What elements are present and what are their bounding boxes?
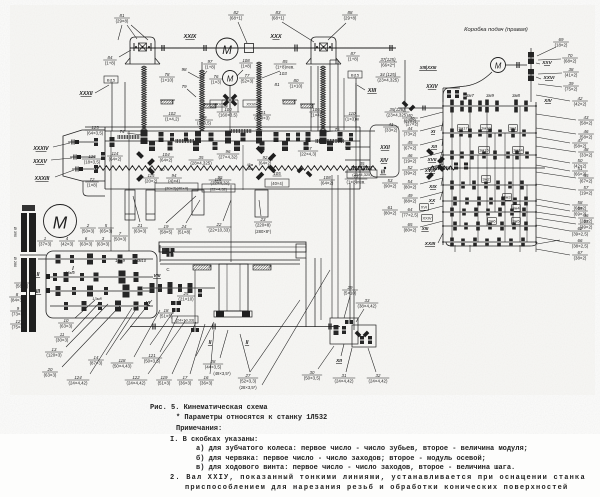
svg-text:49: 49 (408, 193, 413, 198)
svg-text:(64×2): (64×2) (259, 160, 272, 165)
svg-text:(28×3,5*): (28×3,5*) (239, 385, 257, 390)
svg-text:67: 67 (578, 250, 583, 255)
label 13m9 13m10 (115, 258, 147, 263)
svg-text:(18×2): (18×2) (555, 42, 568, 47)
label 104 (64x2) (158, 152, 174, 172)
label 42 (42×2) right of feed box (536, 95, 588, 106)
svg-text:90: 90 (160, 167, 165, 172)
svg-text:(51×5): (51×5) (160, 313, 173, 318)
label 3m6 boxed (488, 218, 497, 225)
svg-text:62: 62 (578, 226, 583, 231)
label 115 94 boxed (143, 173, 198, 191)
label 75 (326, 127, 340, 132)
svg-text:13: 13 (52, 347, 57, 352)
label 70 (68x2) (538, 53, 578, 64)
label XIII XXIII (419, 65, 437, 70)
svg-text:(38×2): (38×2) (574, 255, 587, 260)
svg-text:(33×2): (33×2) (580, 152, 593, 157)
svg-text:83: 83 (276, 10, 281, 15)
cross slide gears (334, 320, 373, 344)
label XXXV (32, 158, 72, 165)
label 17 (36x3) (177, 324, 205, 385)
label 41 (33x2) (383, 122, 399, 133)
label 77 (52x3) (239, 73, 255, 84)
caption line 5 (196, 444, 528, 453)
svg-text:(280×8*): (280×8*) (255, 229, 272, 234)
svg-text:13м9: 13м9 (115, 258, 126, 263)
coupling block on shaft XXIX at x249 (245, 44, 298, 53)
svg-text:Ø 390: Ø 390 (13, 227, 17, 237)
svg-text:(23×4,325): (23×4,325) (352, 172, 372, 177)
svg-text:66: 66 (578, 238, 583, 243)
support hatch mid (203, 104, 218, 108)
label XI left of feed box (430, 121, 443, 135)
gear teeth comb b (176, 139, 194, 143)
svg-text:(67×2): (67×2) (404, 145, 417, 150)
spindle gear row line (105, 130, 375, 132)
svg-text:(36×3): (36×3) (200, 380, 213, 385)
svg-text:(51×8): (51×8) (178, 229, 191, 234)
svg-text:3м17: 3м17 (458, 126, 468, 131)
svg-text:(22×4,32): (22×4,32) (210, 186, 228, 191)
label 72 (1x8) (85, 177, 98, 188)
svg-text:(75×3): (75×3) (12, 324, 25, 329)
svg-text:M: M (53, 212, 68, 232)
pulley column white notches (20, 252, 46, 295)
label 105 (40x4) (265, 171, 289, 187)
svg-text:(20×2)(40×4): (20×2)(40×4) (165, 185, 189, 190)
svg-text:(65×3): (65×3) (100, 228, 113, 233)
label 43 (58×2) right of feed box (536, 114, 594, 125)
label 69 (18x2) (537, 37, 569, 56)
feed motor M3 (491, 58, 506, 73)
label 100 (160x3,5) (217, 107, 240, 118)
svg-text:3м6: 3м6 (488, 219, 496, 224)
label II a (208, 340, 212, 346)
svg-text:(24×4,42): (24×4,42) (335, 378, 354, 383)
svg-text:14: 14 (94, 355, 99, 360)
feed gearbox top edge (443, 88, 460, 102)
svg-text:52: 52 (408, 165, 413, 170)
label XXXII (78, 85, 109, 97)
apron long shaft II (130, 326, 340, 328)
svg-text:(19×2): (19×2) (404, 158, 417, 163)
label 1 (37x3) (37, 236, 53, 247)
label 82 (68+1) (228, 10, 247, 43)
label 102 (1x4,2) (163, 111, 181, 122)
svg-text:(22×10,33): (22×10,33) (208, 227, 230, 232)
svg-text:108: 108 (242, 58, 250, 63)
svg-text:(64×3,5): (64×3,5) (87, 130, 104, 135)
svg-text:(80×2): (80×2) (384, 210, 397, 215)
vertical worm shaft right tall (344, 78, 356, 130)
label 3m8 (512, 93, 520, 98)
label 87 (1+8) (346, 51, 359, 62)
svg-text:39: 39 (569, 81, 574, 86)
label 13m4 (65, 270, 102, 301)
label 28 (44x3,5) (203, 330, 228, 369)
label 29 (5x10) (342, 285, 358, 318)
svg-text:48м: 48м (247, 167, 254, 171)
label 40 (27x2) (404, 116, 420, 127)
gears on upper gear shaft (149, 141, 351, 151)
caption line 3 (176, 425, 222, 433)
headstock left tower wall (112, 82, 125, 131)
label 12 (75x3) (10, 319, 26, 330)
svg-text:(58×2): (58×2) (580, 120, 593, 125)
label 6 (63x3) (78, 236, 94, 247)
fan leader long 2 (262, 270, 330, 385)
label XVII left of feed box (426, 149, 443, 163)
svg-text:48: 48 (584, 147, 589, 152)
svg-text:(23×4,325): (23×4,325) (386, 112, 408, 117)
svg-text:3м3: 3м3 (503, 195, 511, 200)
label 23 (220x8) (254, 200, 272, 234)
svg-text:(77×2,5): (77×2,5) (402, 212, 419, 217)
svg-text:51: 51 (578, 166, 583, 171)
hanging gear A (125, 190, 135, 220)
caption line 9 (185, 483, 568, 492)
svg-text:30: 30 (310, 370, 315, 375)
svg-text:(29×8): (29×8) (116, 18, 129, 23)
svg-text:72: 72 (90, 177, 95, 182)
label 66 (38×2,5) right of feed box (536, 237, 590, 248)
svg-text:119: 119 (161, 375, 169, 380)
svg-text:70: 70 (568, 53, 573, 58)
caption line 2 (176, 414, 327, 422)
coupling on shaft XXIX at x205 (204, 45, 206, 51)
label XII left of feed box (430, 136, 443, 150)
feed gearbox left wall (442, 102, 444, 245)
svg-text:(49×3,5*): (49×3,5*) (213, 371, 231, 376)
label 10 (63x3) (58, 300, 95, 328)
svg-text:41: 41 (389, 122, 394, 127)
label 49 (88×2) left of feed box (402, 192, 443, 203)
svg-text:(120×3): (120×3) (46, 352, 62, 357)
label 21 (63x3) (132, 196, 148, 233)
label 74 (119, 129, 142, 135)
cross slide housing (330, 318, 376, 347)
label 45 (67×2) left of feed box (402, 139, 443, 150)
svg-text:58: 58 (578, 200, 583, 205)
label 53 (90x2) (382, 178, 398, 189)
label 107 (64x3) (298, 146, 318, 157)
svg-text:(80×2): (80×2) (404, 184, 417, 189)
label 97 (1+8) (203, 59, 217, 76)
curve from motor to gearbox (443, 72, 492, 102)
svg-text:80: 80 (294, 78, 299, 83)
svg-text:(68×2): (68×2) (564, 58, 577, 63)
label 40 (27×2) left of feed box (402, 112, 443, 123)
carriage guide hatch right (253, 265, 271, 270)
label 78 (1x10) (159, 72, 175, 83)
label 35 (23x4,325) small (189, 155, 214, 166)
label 121 (50x3,5) (142, 316, 178, 363)
svg-text:в) для ходового винта: первое: в) для ходового винта: первое число - чи… (196, 464, 515, 472)
vertical worm shaft mid-left (200, 62, 205, 131)
svg-text:(27×4,32): (27×4,32) (219, 154, 238, 159)
boxed label B15 left (104, 76, 118, 83)
bevel cluster right mid (426, 148, 445, 180)
label 13 (120x3) (45, 304, 108, 357)
svg-text:(24×4,42): (24×4,42) (69, 380, 88, 385)
label 76 (1x3) (209, 74, 222, 85)
svg-text:(73×2): (73×2) (404, 131, 417, 136)
svg-text:63: 63 (584, 219, 589, 224)
left protrusion box (63, 130, 105, 181)
long worm feed shaft (95, 166, 376, 171)
svg-text:101: 101 (258, 110, 266, 115)
feed gearbox junction dots (442, 105, 537, 243)
fan leader long from carriage (250, 300, 300, 372)
label 14 (87x3) (88, 306, 138, 365)
svg-text:54: 54 (408, 179, 413, 184)
svg-text:126: 126 (88, 154, 96, 159)
svg-text:(1×10): (1×10) (290, 83, 303, 88)
label 34 (23x4,325) (376, 72, 401, 83)
label 58 (68×2) right of feed box (536, 199, 588, 210)
svg-text:(19×2): (19×2) (580, 190, 593, 195)
hanging gear C (192, 190, 204, 215)
gear cluster main gearbox (53, 254, 148, 312)
input shaft stub XXXV (70, 155, 95, 160)
svg-text:108: 108 (323, 175, 331, 180)
label XXIX (183, 34, 198, 40)
svg-text:40: 40 (408, 113, 413, 118)
svg-text:(64×2): (64×2) (160, 157, 173, 162)
label D390 vertical (13, 227, 17, 237)
label II left (36, 272, 50, 279)
svg-text:а) для зубчатого колеса: перво: а) для зубчатого колеса: первое число - … (196, 444, 528, 453)
feed gearbox bottom bracket (446, 240, 560, 246)
svg-text:81: 81 (120, 13, 125, 18)
svg-text:118: 118 (119, 358, 127, 363)
gear cluster on spindle row (141, 130, 354, 144)
svg-text:32: 32 (376, 373, 381, 378)
label 25 (21x10) (177, 291, 195, 302)
apron shaft coupling 1 (153, 324, 155, 330)
svg-text:94: 94 (172, 173, 177, 178)
svg-text:M: M (227, 74, 234, 83)
svg-text:121: 121 (148, 353, 156, 358)
svg-text:81: 81 (274, 82, 280, 87)
label XIII small (421, 226, 429, 231)
svg-text:55: 55 (584, 173, 589, 178)
svg-text:65: 65 (408, 222, 413, 227)
label 54 (80×2) left of feed box (402, 178, 443, 189)
label XXX (269, 34, 282, 40)
bevel cluster center (256, 146, 313, 180)
svg-text:47: 47 (578, 138, 583, 143)
feed box support lines (452, 242, 536, 252)
label 3m17 boxed (458, 125, 469, 132)
svg-text:(63×3): (63×3) (60, 323, 73, 328)
svg-text:(1+8)лев.: (1+8)лев. (276, 64, 295, 69)
output stub XXII (345, 145, 390, 151)
svg-text:34 (125): 34 (125) (380, 72, 397, 77)
svg-text:(68+1): (68+1) (272, 15, 285, 20)
gearbox shaft III (50, 290, 153, 292)
svg-text:(63×3): (63×3) (80, 241, 93, 246)
svg-text:(51×3): (51×3) (158, 380, 171, 385)
gear teeth comb a (118, 135, 139, 139)
svg-text:124: 124 (74, 375, 82, 380)
caption line 7 (196, 464, 515, 472)
label 122 (24x4,42) (125, 320, 186, 385)
svg-text:I. В скобках указаны:: I. В скобках указаны: (170, 435, 258, 444)
label III left (35, 288, 50, 295)
svg-text:35: 35 (360, 161, 365, 166)
label 33 (38x4,42) (356, 298, 379, 322)
label 22 (207, 200, 232, 232)
caption line 6 (196, 454, 486, 463)
svg-text:(50×4,43): (50×4,43) (113, 363, 132, 368)
bevel gear pair under motor M2 (222, 93, 238, 108)
svg-text:(63×3): (63×3) (97, 241, 110, 246)
feed motor shaft (506, 62, 528, 68)
label XX left of feed box (428, 190, 443, 204)
label 4 (56x3) (14, 278, 30, 289)
svg-text:(36×3): (36×3) (179, 380, 192, 385)
feed rod columns (306, 258, 321, 327)
svg-text:82: 82 (234, 10, 239, 15)
box 72 below protrusion (83, 181, 105, 196)
label 37 (66x2) (379, 57, 397, 68)
feed gearbox gear clusters (450, 100, 529, 247)
svg-text:45: 45 (408, 140, 413, 145)
fan leader extra 1 (120, 300, 152, 340)
svg-text:С: С (166, 267, 169, 272)
svg-text:(38×4,42): (38×4,42) (358, 303, 377, 308)
label 7 (50x3) (112, 231, 128, 242)
svg-text:3м10: 3м10 (481, 126, 491, 131)
label 83 (68+1) (270, 10, 314, 42)
svg-text:69: 69 (559, 37, 564, 42)
svg-text:37(125): 37(125) (380, 57, 396, 62)
motor M1 on top shaft (216, 38, 238, 60)
svg-text:61: 61 (388, 205, 393, 210)
label 27 (52x3,3) (238, 334, 258, 390)
svg-text:(20×2): (20×2) (145, 178, 158, 183)
svg-text:57: 57 (584, 185, 589, 190)
svg-text:В|15: В|15 (351, 72, 360, 77)
label 11 (30x3) (54, 302, 100, 342)
svg-text:75: 75 (334, 127, 340, 132)
svg-text:96: 96 (226, 149, 231, 154)
svg-text:12: 12 (16, 319, 21, 324)
right output bracket (370, 125, 399, 177)
label 98 (181, 67, 199, 78)
svg-text:44: 44 (408, 126, 413, 131)
svg-text:13м8: 13м8 (92, 296, 102, 301)
svg-text:(1×3): (1×3) (211, 79, 222, 84)
vertical feed screw line 1 (349, 183, 351, 320)
label 62 (39×2,5) right of feed box (536, 225, 590, 236)
svg-text:42: 42 (578, 96, 583, 101)
svg-text:(24×4,42): (24×4,42) (369, 378, 388, 383)
svg-text:114: 114 (112, 151, 120, 156)
label (42x3) (59, 236, 75, 247)
svg-text:3м9: 3м9 (486, 93, 494, 98)
svg-text:103: 103 (279, 71, 287, 76)
svg-text:Примечания:: Примечания: (176, 425, 222, 433)
svg-text:3м1: 3м1 (509, 126, 517, 131)
label 63 (39×2) right of feed box (536, 218, 594, 229)
label C (166, 267, 169, 272)
svg-text:10: 10 (64, 318, 69, 323)
svg-text:(29+8): (29+8) (344, 15, 357, 20)
svg-text:35: 35 (199, 155, 204, 160)
svg-text:3м7: 3м7 (466, 93, 474, 98)
svg-text:VIII: VIII (154, 273, 162, 278)
gear cluster left mid (94, 137, 115, 173)
svg-text:Рис. 5. Кинематическая схема: Рис. 5. Кинематическая схема (150, 404, 268, 412)
svg-text:M: M (495, 61, 502, 70)
svg-text:(39×2,5): (39×2,5) (572, 231, 589, 236)
label 65 (80×2) left of feed box (402, 221, 443, 232)
svg-text:(42×3): (42×3) (61, 241, 74, 246)
svg-text:(67×2): (67×2) (580, 178, 593, 183)
svg-text:(41×2): (41×2) (565, 72, 578, 77)
label XXIV top (425, 84, 438, 90)
caption line 1 (150, 404, 268, 412)
svg-text:VI: VI (146, 300, 151, 305)
svg-text:XVI: XVI (421, 205, 427, 210)
label 73 boxed (172, 316, 198, 323)
svg-text:43: 43 (584, 115, 589, 120)
label 118 (50x4,43) (111, 310, 160, 368)
input shaft stub XXXIII (72, 167, 95, 172)
svg-text:(88×2): (88×2) (404, 198, 417, 203)
svg-text:46: 46 (408, 153, 413, 158)
label 59 (69×2) right of feed box (536, 205, 588, 216)
svg-text:3м4: 3м4 (512, 206, 520, 211)
svg-text:76: 76 (214, 74, 219, 79)
label 47 (58×2) right of feed box (536, 137, 588, 148)
main drive gearbox box (46, 251, 157, 318)
svg-text:13м4: 13м4 (65, 270, 75, 275)
vertical worm shaft from left pedestal (142, 66, 147, 130)
svg-text:(38×2,5): (38×2,5) (572, 243, 589, 248)
svg-text:100: 100 (224, 107, 232, 112)
svg-text:3м14: 3м14 (513, 148, 523, 153)
label I (72, 266, 74, 272)
svg-text:20: 20 (47, 367, 53, 372)
svg-text:(33×2): (33×2) (385, 127, 398, 132)
hanging gear B (146, 190, 155, 220)
svg-text:(1×10): (1×10) (161, 77, 174, 82)
label 85 (1+8) lev (262, 59, 296, 78)
svg-text:В|15: В|15 (107, 77, 116, 82)
svg-text:(1×8): (1×8) (241, 63, 252, 68)
svg-text:M: M (222, 45, 232, 57)
svg-text:24: 24 (181, 224, 187, 229)
label 103 (279, 71, 287, 76)
label 30 (50x3,5) (302, 346, 334, 380)
vertical feed screw line 3 (355, 83, 357, 183)
bed right end step (296, 244, 306, 258)
label XVIII left of feed box (424, 160, 443, 174)
label 3m4 boxed (512, 205, 521, 212)
label 81b (274, 82, 280, 87)
svg-text:28: 28 (210, 359, 216, 364)
svg-text:(22×4,32): (22×4,32) (211, 180, 230, 185)
long vertical left a (110, 131, 112, 251)
label 3m5 boxed (512, 218, 521, 225)
gear teeth comb g (432, 166, 451, 170)
label XVI boxed (420, 204, 429, 211)
svg-text:92: 92 (263, 155, 268, 160)
